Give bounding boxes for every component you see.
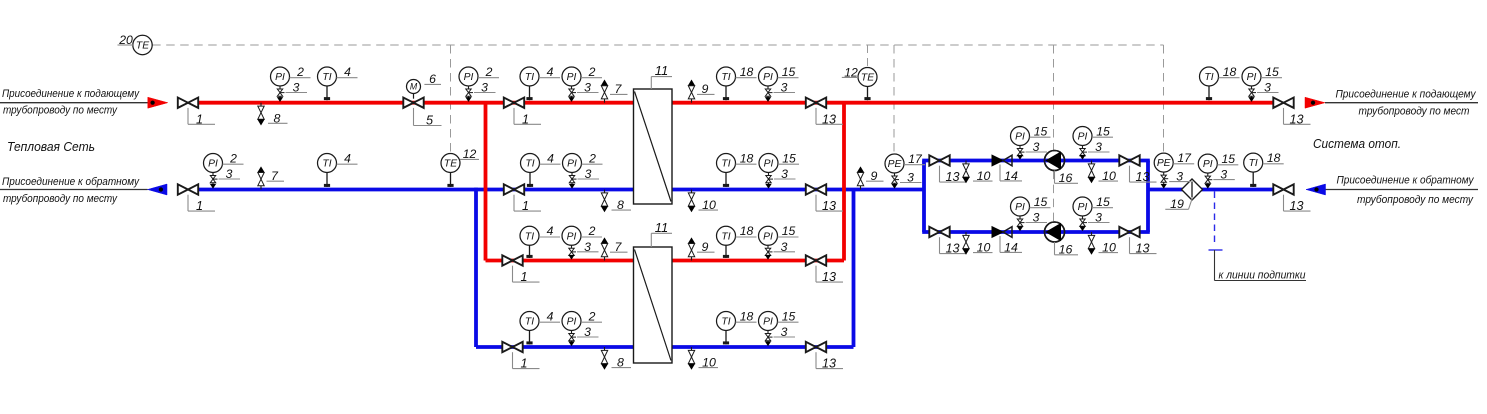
svg-text:4: 4 [547,309,554,323]
svg-text:4: 4 [547,224,554,238]
svg-text:Присоединение к обратному: Присоединение к обратному [1337,175,1475,187]
svg-text:13: 13 [822,112,836,126]
svg-text:13: 13 [945,242,959,256]
svg-text:1: 1 [522,199,529,213]
svg-text:3: 3 [584,240,591,254]
svg-text:15: 15 [1265,65,1279,79]
svg-text:15: 15 [782,224,796,238]
svg-text:18: 18 [740,151,754,165]
svg-text:3: 3 [781,81,788,95]
svg-text:3: 3 [1264,81,1271,95]
svg-text:трубопроводу по месту: трубопроводу по месту [3,105,118,117]
svg-text:PI: PI [1015,132,1025,143]
svg-text:Присоединение к подающему: Присоединение к подающему [1336,88,1477,100]
svg-text:3: 3 [1033,211,1040,225]
svg-text:TI: TI [322,159,331,170]
svg-text:13: 13 [1135,170,1149,184]
svg-text:13: 13 [1135,242,1149,256]
svg-text:к линии подпитки: к линии подпитки [1219,269,1306,281]
svg-text:TI: TI [525,317,534,328]
svg-text:PI: PI [275,72,285,83]
svg-text:TI: TI [721,231,730,242]
svg-text:TE: TE [444,159,457,170]
svg-text:TE: TE [861,73,874,84]
svg-text:10: 10 [702,198,716,212]
svg-text:TI: TI [721,317,730,328]
svg-text:1: 1 [520,270,527,284]
svg-text:6: 6 [429,72,436,86]
svg-text:3: 3 [293,81,300,95]
svg-text:TI: TI [322,72,331,83]
svg-text:14: 14 [1004,240,1018,254]
svg-text:18: 18 [740,309,754,323]
svg-text:8: 8 [617,356,624,370]
svg-text:PI: PI [1078,202,1088,213]
svg-text:4: 4 [344,151,351,165]
svg-text:TI: TI [525,72,534,83]
svg-text:16: 16 [1059,171,1073,185]
svg-text:PI: PI [1015,202,1025,213]
svg-text:TI: TI [525,159,534,170]
svg-text:17: 17 [908,152,923,166]
svg-text:18: 18 [740,224,754,238]
svg-text:PI: PI [1247,72,1257,83]
svg-text:17: 17 [1177,151,1192,165]
svg-text:9: 9 [702,82,709,96]
svg-text:13: 13 [822,270,836,284]
svg-text:Тепловая Сеть: Тепловая Сеть [7,140,95,154]
svg-text:15: 15 [1222,152,1236,166]
svg-text:9: 9 [702,240,709,254]
svg-text:3: 3 [781,325,788,339]
svg-text:2: 2 [588,65,596,79]
svg-text:3: 3 [1176,170,1183,184]
svg-text:TI: TI [1249,158,1258,169]
svg-text:10: 10 [1102,169,1116,183]
svg-text:TI: TI [1204,72,1213,83]
svg-text:Присоединение к подающему: Присоединение к подающему [2,88,140,100]
svg-text:8: 8 [274,111,281,125]
svg-text:3: 3 [1033,140,1040,154]
svg-text:TI: TI [525,231,534,242]
svg-text:13: 13 [822,357,836,371]
svg-text:3: 3 [481,81,488,95]
svg-text:1: 1 [520,357,527,371]
svg-text:12: 12 [844,65,858,79]
svg-text:4: 4 [547,65,554,79]
svg-text:11: 11 [655,63,669,78]
svg-text:Система отоп.: Система отоп. [1313,137,1401,151]
svg-text:PI: PI [567,159,577,170]
svg-text:PI: PI [208,159,218,170]
svg-text:4: 4 [547,151,554,165]
svg-text:13: 13 [1289,199,1303,213]
svg-text:2: 2 [296,65,304,79]
svg-text:10: 10 [1102,241,1116,255]
svg-text:3: 3 [585,167,592,181]
svg-text:15: 15 [782,151,796,165]
svg-text:PE: PE [888,159,902,170]
svg-text:PI: PI [567,231,577,242]
svg-text:15: 15 [782,309,796,323]
svg-text:2: 2 [588,151,596,165]
svg-text:3: 3 [1095,211,1102,225]
svg-text:13: 13 [822,199,836,213]
svg-text:3: 3 [781,240,788,254]
svg-text:3: 3 [1220,168,1227,182]
svg-text:15: 15 [1096,195,1110,209]
svg-text:13: 13 [945,170,959,184]
svg-text:12: 12 [463,147,477,161]
svg-text:10: 10 [977,241,991,255]
svg-text:1: 1 [522,112,529,126]
svg-text:PI: PI [764,159,774,170]
svg-text:трубопроводу по месту: трубопроводу по месту [1357,194,1474,206]
svg-text:15: 15 [1034,195,1048,209]
svg-text:7: 7 [615,82,623,96]
svg-text:10: 10 [977,169,991,183]
svg-text:15: 15 [782,65,796,79]
svg-text:Присоединение к обратному: Присоединение к обратному [2,176,140,188]
svg-text:трубопроводу по месту: трубопроводу по месту [3,193,118,205]
svg-text:15: 15 [1034,124,1048,138]
svg-text:PI: PI [1203,159,1213,170]
svg-text:PI: PI [1078,132,1088,143]
svg-text:PI: PI [763,231,773,242]
svg-text:18: 18 [740,65,754,79]
svg-text:1: 1 [196,112,203,126]
svg-text:3: 3 [584,81,591,95]
svg-text:19: 19 [1170,197,1184,211]
svg-text:2: 2 [588,309,596,323]
svg-text:14: 14 [1004,169,1018,183]
svg-text:3: 3 [1095,140,1102,154]
svg-text:7: 7 [615,240,623,254]
svg-text:PI: PI [763,72,773,83]
svg-text:18: 18 [1267,151,1281,165]
svg-text:4: 4 [344,65,351,79]
svg-text:M: M [410,82,418,92]
svg-text:7: 7 [271,169,279,183]
svg-text:PI: PI [567,317,577,328]
svg-text:10: 10 [702,356,716,370]
svg-text:TE: TE [136,41,149,52]
svg-text:18: 18 [1223,65,1237,79]
svg-text:13: 13 [1289,112,1303,126]
svg-text:2: 2 [229,151,237,165]
svg-text:5: 5 [426,114,434,128]
svg-text:8: 8 [617,198,624,212]
svg-text:2: 2 [485,65,493,79]
svg-text:20: 20 [118,33,133,47]
svg-text:TI: TI [721,159,730,170]
svg-text:PI: PI [763,317,773,328]
svg-text:9: 9 [871,169,878,183]
svg-text:PI: PI [464,72,474,83]
svg-text:PI: PI [567,72,577,83]
svg-text:1: 1 [196,199,203,213]
svg-text:16: 16 [1059,243,1073,257]
svg-text:15: 15 [1096,124,1110,138]
svg-text:PE: PE [1157,158,1171,169]
svg-text:3: 3 [907,171,914,185]
svg-text:2: 2 [588,224,596,238]
svg-text:TI: TI [721,72,730,83]
svg-text:3: 3 [781,167,788,181]
svg-text:трубопроводу по мест: трубопроводу по мест [1359,105,1470,117]
svg-text:3: 3 [584,325,591,339]
svg-text:3: 3 [226,167,233,181]
